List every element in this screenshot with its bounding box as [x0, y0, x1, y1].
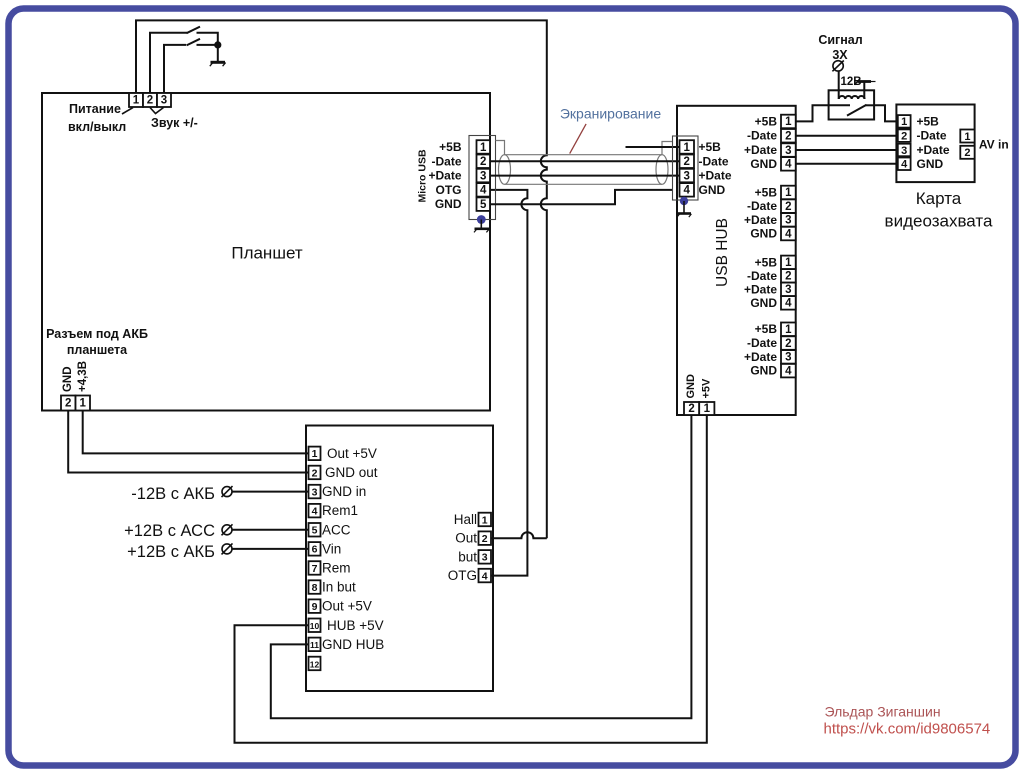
svg-text:ACC: ACC [322, 522, 351, 537]
U1 left pin 3 GND in [309, 484, 367, 499]
svg-text:9: 9 [312, 601, 318, 613]
svg-text:+Date: +Date [744, 282, 777, 296]
svg-text:2: 2 [785, 338, 791, 350]
svg-text:4: 4 [482, 570, 488, 582]
ground (Micro USB) [474, 220, 489, 233]
svg-text:+5В: +5В [755, 114, 778, 128]
svg-text:-Date: -Date [917, 129, 947, 143]
svg-text:4: 4 [901, 159, 908, 171]
HUB port2 pin1 +5B [755, 185, 796, 199]
svg-text:3: 3 [482, 552, 488, 564]
svg-text:GND in: GND in [322, 484, 366, 499]
HUB port4 pin3 +Date [744, 350, 796, 364]
svg-text:Out: Out [455, 531, 477, 546]
svg-text:Сигнал: Сигнал [818, 33, 862, 47]
svg-text:1: 1 [704, 403, 711, 415]
svg-text:4: 4 [312, 506, 318, 518]
svg-text:2: 2 [901, 131, 907, 143]
svg-text:Звук +/-: Звук +/- [151, 116, 198, 130]
svg-text:+5V: +5V [700, 378, 712, 399]
wire J1 pin3 to switch SW2 [164, 45, 186, 93]
wire SW2 contact to junction [197, 44, 218, 46]
svg-text:+5В: +5В [755, 185, 778, 199]
HUB port1 pin1 +5B [755, 114, 796, 128]
wire J2 pin1 (+4,3В) to amp pin1 [83, 411, 309, 454]
HUB bottom connector pin 2 (GND) [684, 374, 699, 415]
wire HUB port1 pin2 to card pin2 [796, 135, 898, 137]
wire signal input to coil [838, 71, 840, 99]
svg-text:5: 5 [480, 199, 487, 211]
svg-text:+Date: +Date [428, 169, 461, 183]
U1 left pin 4 Rem1 [309, 503, 359, 518]
shield hook left (to Micro USB body) [496, 141, 505, 155]
svg-text:2: 2 [480, 156, 486, 168]
svg-text:Rem: Rem [322, 561, 351, 576]
label Питание вкл/выкл [68, 102, 133, 134]
wire net OUT: J1 pin1 up, across top, down to Out pin (hops at cable) [136, 20, 547, 538]
svg-text:+12В с АСС: +12В с АСС [124, 522, 215, 540]
svg-text:3: 3 [785, 284, 791, 296]
svg-text:1: 1 [964, 131, 970, 143]
svg-text:Эльдар Зиганшин: Эльдар Зиганшин [825, 704, 941, 720]
wire HUB port1 pin4 to card pin4 [796, 163, 898, 165]
junction dot (switch commons) [214, 41, 221, 48]
junction dot (Micro USB shield to ground) [477, 215, 486, 224]
wire J1 pin2 to switch SW1 [150, 33, 187, 93]
svg-text:2: 2 [688, 403, 694, 415]
HUB port3 pin1 +5B [755, 255, 796, 269]
U1 left pin 6 Vin [309, 541, 342, 556]
switch SW1 blade [187, 27, 201, 34]
svg-text:OTG: OTG [448, 568, 477, 583]
HUB port4 pin4 GND [750, 364, 795, 378]
svg-text:12: 12 [310, 659, 320, 669]
svg-text:-Date: -Date [699, 154, 729, 168]
svg-text:-Date: -Date [431, 154, 461, 168]
Micro USB pin 3 (+Date) [428, 169, 490, 183]
wire HUB port1 pin3 to card pin3 [796, 149, 898, 151]
svg-text:Разъем под АКБ: Разъем под АКБ [46, 327, 148, 341]
svg-text:8: 8 [312, 582, 318, 594]
HUB port1 pin4 GND [750, 157, 795, 171]
svg-text:2: 2 [147, 95, 153, 107]
wire -Date (Micro USB pin2 to HUB pin2) [490, 160, 680, 162]
HUB port2 pin3 +Date [744, 213, 796, 227]
HUB port3 pin3 +Date [744, 282, 796, 296]
svg-text:3: 3 [785, 145, 791, 157]
HUB port3 pin2 -Date [747, 269, 796, 283]
HUB port3 pin4 GND [750, 296, 795, 310]
svg-text:+5В: +5В [755, 255, 778, 269]
svg-text:GND: GND [685, 374, 697, 399]
svg-text:GND: GND [750, 364, 777, 378]
svg-text:3: 3 [161, 95, 167, 107]
wire +Date (Micro USB pin3 to HUB pin3) [490, 175, 680, 177]
svg-text:4: 4 [785, 365, 792, 377]
wire GND (Micro USB pin5 to HUB pin4, jog up) [490, 190, 673, 204]
shield ellipse right [656, 155, 668, 185]
svg-text:+12В с АКБ: +12В с АКБ [127, 543, 215, 561]
HUB port4 pin2 -Date [747, 336, 796, 350]
svg-text:3: 3 [901, 145, 907, 157]
input terminal +12В с АСС [124, 522, 232, 540]
svg-text:+Date: +Date [917, 143, 950, 157]
svg-text:but: but [458, 549, 477, 564]
svg-text:планшета: планшета [67, 343, 128, 357]
leader line (Экранирование to shield) [570, 124, 586, 154]
wire HUB port1 pin1 to relay K1 [796, 105, 829, 121]
svg-text:GND: GND [917, 157, 944, 171]
svg-text:3: 3 [480, 170, 486, 182]
svg-text:GND: GND [750, 157, 777, 171]
svg-text:GND: GND [435, 197, 462, 211]
shield ellipse left [499, 155, 511, 185]
HUB input plug bracket [673, 136, 699, 200]
svg-text:+Date: +Date [744, 213, 777, 227]
svg-text:AV in: AV in [979, 138, 1009, 152]
HUB input pin 1 (+5В) [680, 140, 722, 154]
connector J1 power/sound pins 1-3 [129, 93, 171, 107]
svg-text:видеозахвата: видеозахвата [885, 211, 993, 230]
svg-text:GND: GND [699, 183, 726, 197]
HUB port2 pin2 -Date [747, 199, 796, 213]
card pin 4 (GND) [898, 157, 944, 171]
svg-text:2: 2 [785, 201, 791, 213]
wire -12В to U1 pin3 [232, 491, 309, 493]
U1 left pin 1 Out +5V [309, 446, 377, 461]
svg-text:5: 5 [312, 525, 318, 537]
wire U1 pin11 GND HUB to hub bottom pin2 [271, 415, 692, 718]
card AV in pin 1 [960, 130, 974, 143]
svg-text:1: 1 [785, 257, 792, 269]
U1 right pin 3 but [458, 549, 491, 564]
svg-text:4: 4 [785, 228, 792, 240]
svg-text:Vin: Vin [322, 541, 341, 556]
svg-text:11: 11 [310, 640, 319, 650]
svg-text:2: 2 [65, 398, 71, 410]
svg-text:Rem1: Rem1 [322, 503, 358, 518]
svg-text:GND HUB: GND HUB [322, 637, 384, 652]
U1 right pin 2 Out [455, 531, 491, 546]
wire U1 pin10 HUB +5V to hub bottom pin1 [235, 415, 707, 743]
HUB port1 pin2 -Date [747, 129, 796, 143]
svg-text:4: 4 [785, 159, 792, 171]
shield top line [505, 154, 663, 156]
connector Micro USB bracket [469, 136, 496, 220]
HUB port1 pin3 +Date [744, 143, 796, 157]
svg-text:1: 1 [901, 116, 907, 128]
svg-text:3: 3 [312, 486, 318, 498]
svg-text:+5В: +5В [439, 140, 462, 154]
USB HUB module [677, 106, 796, 415]
U1 left pin 11 GND HUB [309, 637, 385, 652]
svg-text:2: 2 [785, 271, 791, 283]
U1 right pin 1 Hall [454, 512, 491, 527]
U1 left pin 8 In but [309, 580, 357, 595]
label Звук +/- [150, 108, 198, 131]
svg-text:Out +5V: Out +5V [322, 599, 372, 614]
svg-text:Питание: Питание [69, 102, 121, 116]
HUB input pin 4 (GND) [680, 183, 726, 197]
svg-text:1: 1 [482, 514, 488, 526]
svg-text:Micro USB: Micro USB [417, 149, 429, 203]
svg-text:1: 1 [785, 187, 792, 199]
HUB bottom connector pin 1 (+5V) [699, 378, 714, 415]
U1 right pin 4 OTG [448, 568, 491, 583]
relay K1 contact right stub [866, 104, 875, 106]
Micro USB pin 5 (GND) [435, 197, 490, 211]
svg-text:+5В: +5В [755, 322, 778, 336]
relay K1 contact left [829, 104, 850, 106]
svg-text:USB HUB: USB HUB [714, 218, 731, 287]
Micro USB pin 2 (-Date) [431, 154, 490, 168]
card pin 1 (+5В) [898, 114, 939, 128]
svg-text:OTG: OTG [436, 183, 462, 197]
Micro USB pin 1 (+5В) [439, 140, 490, 154]
svg-text:Out +5V: Out +5V [327, 446, 377, 461]
wire U1 Out pin2 to net OUT (hop over OTG wire) [491, 532, 547, 538]
svg-text:+Date: +Date [699, 169, 732, 183]
wire U1 OTG pin4 to Micro USB OTG (hop over GND jog) [490, 190, 527, 576]
+12V tap symbol [855, 79, 876, 85]
wire +12В АКБ to U1 pin6 [232, 548, 309, 550]
svg-text:2: 2 [785, 131, 791, 143]
label Разъем под АКБ планшета [46, 327, 148, 357]
svg-text:GND: GND [62, 366, 74, 392]
relay K1 coil [839, 96, 865, 99]
U1 left pin 7 Rem [309, 561, 351, 576]
svg-text:-Date: -Date [747, 199, 777, 213]
svg-text:1: 1 [79, 398, 86, 410]
wire relay K1 to card pin1 [874, 105, 898, 121]
svg-text:1: 1 [785, 116, 792, 128]
video capture card module [885, 105, 993, 231]
wire SW1 contact to junction [197, 33, 218, 45]
wire coil to +12V tap [863, 82, 865, 99]
wire J2 pin2 (GND) to amp pin2 [68, 411, 308, 473]
svg-text:4: 4 [480, 185, 487, 197]
svg-text:+Date: +Date [744, 143, 777, 157]
svg-text:-Date: -Date [747, 129, 777, 143]
svg-text:2: 2 [312, 467, 318, 479]
svg-text:10: 10 [310, 621, 320, 631]
card pin 3 (+Date) [898, 143, 950, 157]
ground (switch) [210, 45, 226, 66]
svg-text:3: 3 [785, 215, 791, 227]
svg-text:3Х: 3Х [832, 48, 848, 62]
Micro USB pin 4 (OTG) [436, 183, 491, 197]
svg-text:GND: GND [750, 296, 777, 310]
svg-text:2: 2 [964, 147, 970, 159]
wire +12В АСС to U1 pin5 [232, 529, 309, 531]
svg-text:6: 6 [312, 544, 318, 556]
junction dot (HUB plug shield to ground) [680, 197, 688, 205]
svg-text:+Date: +Date [744, 350, 777, 364]
HUB port4 pin1 +5B [755, 322, 796, 336]
svg-text:1: 1 [312, 448, 318, 460]
HUB input pin 3 (+Date) [680, 169, 732, 183]
svg-text:In but: In but [322, 580, 356, 595]
U1 left pin 10 HUB +5V [309, 618, 384, 633]
svg-text:1: 1 [480, 142, 487, 154]
svg-text:+5В: +5В [699, 140, 722, 154]
svg-text:1: 1 [785, 324, 792, 336]
svg-text:3: 3 [785, 352, 791, 364]
svg-text:1: 1 [133, 95, 140, 107]
shield hook right (to HUB plug body) [662, 142, 673, 155]
relay K1 blade [847, 105, 867, 116]
relay K1 box [829, 90, 875, 119]
svg-text:1: 1 [683, 142, 690, 154]
svg-text:4: 4 [785, 298, 792, 310]
svg-text:GND: GND [750, 227, 777, 241]
U1 left pin 12 [309, 657, 321, 671]
U1 left pin 9 Out +5V [309, 599, 372, 614]
switch SW2 blade [187, 39, 201, 46]
svg-text:+5В: +5В [917, 114, 940, 128]
U1 left pin 5 ACC [309, 522, 351, 537]
svg-text:Hall: Hall [454, 512, 477, 527]
svg-text:-12В с АКБ: -12В с АКБ [131, 485, 215, 503]
HUB input pin 2 (-Date) [680, 154, 729, 168]
svg-text:HUB +5V: HUB +5V [327, 618, 384, 633]
svg-text:https://vk.com/id9806574: https://vk.com/id9806574 [824, 720, 991, 737]
connector J2 АКБ pins 2,1 [61, 396, 90, 411]
svg-text:GND out: GND out [325, 465, 378, 480]
svg-text:вкл/выкл: вкл/выкл [68, 120, 126, 134]
svg-text:3: 3 [683, 170, 689, 182]
amplifier/controller module U1 [306, 426, 493, 692]
svg-text:2: 2 [482, 533, 488, 545]
terminal Сигнал 3Х [818, 33, 862, 72]
svg-text:Карта: Карта [916, 189, 962, 208]
svg-text:Экранирование: Экранирование [560, 106, 662, 122]
shield bottom line [505, 183, 663, 185]
HUB port2 pin4 GND [750, 227, 795, 241]
card pin 2 (-Date) [898, 129, 947, 143]
U1 left pin 2 GND out [309, 465, 378, 480]
svg-text:2: 2 [683, 156, 689, 168]
input terminal -12В с АКБ [131, 485, 232, 503]
svg-text:-Date: -Date [747, 269, 777, 283]
input terminal +12В с АКБ [127, 543, 232, 561]
tablet module Планшет [42, 93, 490, 411]
svg-text:4: 4 [683, 185, 690, 197]
svg-text:+4,3В: +4,3В [77, 361, 89, 392]
svg-text:-Date: -Date [747, 336, 777, 350]
wire +5B stub from HUB pin1 [626, 146, 680, 148]
svg-text:Планшет: Планшет [231, 244, 303, 263]
ground (HUB plug) [677, 201, 691, 217]
card AV in pin 2 [960, 146, 974, 159]
svg-text:7: 7 [312, 563, 318, 575]
